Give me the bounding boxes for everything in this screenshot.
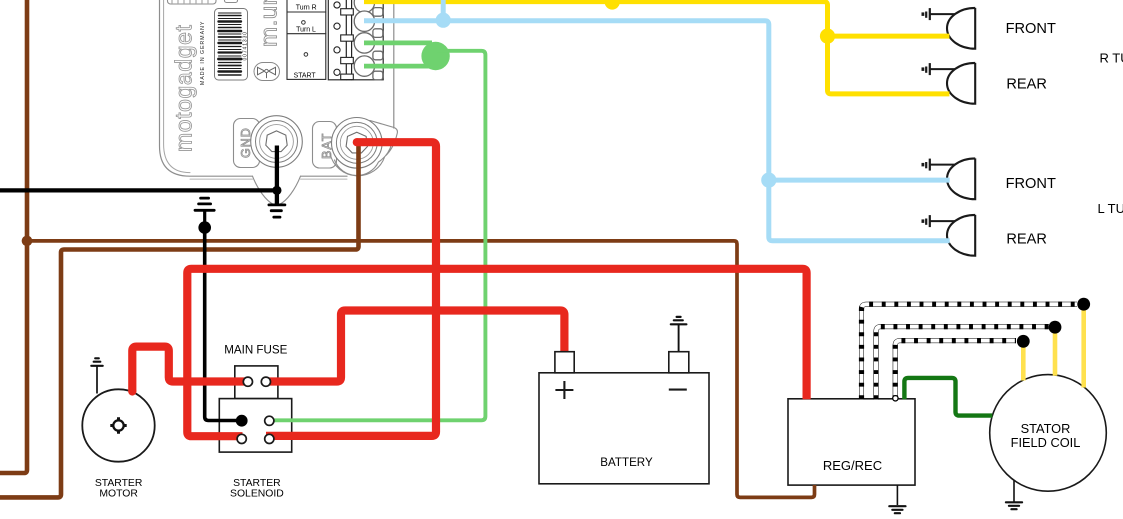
svg-text:motogadget: motogadget — [171, 25, 197, 152]
svg-text:BATTERY: BATTERY — [600, 456, 653, 469]
svg-text:L TURN: L TURN — [1098, 201, 1123, 216]
svg-text:FIELD COIL: FIELD COIL — [1011, 435, 1081, 450]
battery B1 — [539, 317, 709, 484]
reg/rec ground — [896, 485, 898, 505]
starter motor M1 — [82, 358, 154, 461]
red main power wire to reg/rec — [187, 269, 806, 436]
red wire BAT to solenoid — [266, 142, 436, 436]
big green junction dot — [421, 42, 449, 70]
blue stub up at junction — [441, 0, 446, 20]
m.unit case outline — [160, 0, 394, 176]
BAT terminal rings — [332, 118, 383, 169]
reg/rec terminal circle — [893, 396, 898, 401]
green wire to starter solenoid — [269, 51, 485, 421]
green start wires from m.unit — [364, 43, 441, 66]
yellow junction dots — [605, 0, 620, 10]
starter motor shaft icon — [113, 420, 123, 430]
svg-text:STATOR: STATOR — [1021, 421, 1071, 436]
svg-text:REG/REC: REG/REC — [823, 458, 882, 473]
black wire GND to chassis — [0, 146, 277, 191]
brown junction dot — [22, 236, 33, 247]
GND terminal rings — [251, 116, 303, 168]
GND terminal plate — [234, 119, 260, 168]
ground symbol below GND wire — [275, 190, 279, 203]
svg-text:MOTOR: MOTOR — [99, 488, 138, 499]
m.unit case inner seam — [164, 0, 190, 173]
svg-text:START: START — [294, 72, 317, 79]
stator lead junction dots — [1017, 335, 1030, 348]
blue wire m.unit Turn L output — [364, 21, 950, 241]
m.unit top connector stubs — [168, 0, 217, 4]
BAT flange — [330, 121, 397, 176]
svg-text:REAR: REAR — [1006, 77, 1047, 93]
lamp R TURN REAR — [923, 63, 975, 104]
lamp L TURN REAR — [923, 215, 975, 256]
dashed AC wire 3 reg/rec to stator — [895, 341, 1016, 400]
solenoid terminals — [237, 416, 246, 425]
GND pointed tab — [253, 176, 301, 205]
function label column — [287, 0, 326, 79]
red wire main fuse to battery positive — [266, 311, 564, 382]
battery positive terminal post — [555, 352, 574, 373]
stator yellow lead 2 — [1053, 331, 1058, 376]
battery plus sign — [555, 381, 573, 399]
svg-text:R TURN: R TURN — [1100, 51, 1123, 66]
red wire starter motor to main fuse — [132, 347, 245, 392]
lamp L TURN FRONT — [923, 158, 975, 199]
dark green wire reg/rec to stator — [904, 378, 992, 416]
BAT terminal plate — [313, 122, 337, 169]
yellow wire m.unit Turn R output — [364, 2, 949, 94]
starter motor ground — [96, 367, 98, 394]
stator yellow lead 3 — [1081, 308, 1086, 388]
black junction dot on solenoid feed — [198, 221, 211, 234]
turn signal lamps — [923, 8, 975, 256]
m.unit control box U1 — [160, 0, 398, 205]
battery negative ground — [678, 325, 680, 352]
barcode box — [215, 9, 248, 81]
svg-text:FRONT: FRONT — [1006, 176, 1056, 192]
brown wire from m.unit AUX down left edge — [0, 0, 27, 473]
yellow branch to R front lamp — [828, 34, 950, 39]
svg-text:MADE IN GERMANY: MADE IN GERMANY — [200, 21, 206, 85]
svg-text:Turn R: Turn R — [296, 5, 317, 12]
starter solenoid K1 — [219, 399, 291, 453]
svg-text:MAIN FUSE: MAIN FUSE — [224, 344, 287, 357]
dashed AC wire 2 reg/rec to stator — [876, 327, 1049, 400]
svg-text:STARTER: STARTER — [233, 478, 281, 489]
terminal wire holes pins 1-4 — [354, 0, 383, 80]
regulator rectifier REG/REC — [788, 399, 915, 485]
svg-text:STARTER: STARTER — [95, 478, 143, 489]
blue junction dots — [436, 13, 451, 28]
stator yellow lead 1 — [1021, 345, 1026, 381]
inverted ground symbol on solenoid feed — [195, 198, 214, 210]
main fuse terminals — [243, 377, 252, 386]
bowtie icon — [254, 63, 280, 81]
black wire to starter solenoid — [205, 228, 242, 421]
stator ground — [1013, 481, 1015, 502]
dashed AC wire 1 reg/rec to stator — [862, 304, 1078, 399]
svg-text:m.un: m.un — [257, 0, 282, 47]
black dot on solenoid trigger terminal — [236, 415, 248, 427]
screw terminal block — [328, 0, 383, 80]
svg-text:FRONT: FRONT — [1006, 21, 1056, 37]
blue branch to L front lamp — [769, 178, 950, 183]
battery minus sign — [669, 389, 687, 391]
brown wire to reg/rec bottom — [27, 241, 815, 498]
lamp R TURN FRONT — [923, 8, 975, 49]
black junction dot at GND — [272, 186, 281, 195]
battery negative terminal post — [669, 352, 689, 373]
svg-text:REAR: REAR — [1006, 231, 1047, 247]
svg-text:SOLENOID: SOLENOID — [230, 488, 284, 499]
main fuse F1 — [235, 366, 278, 399]
svg-text:00741330: 00741330 — [242, 31, 248, 60]
stator field coil G1 — [990, 375, 1107, 492]
svg-text:Turn L: Turn L — [296, 26, 316, 33]
brown wire BAT terminal to lower left — [0, 142, 359, 497]
